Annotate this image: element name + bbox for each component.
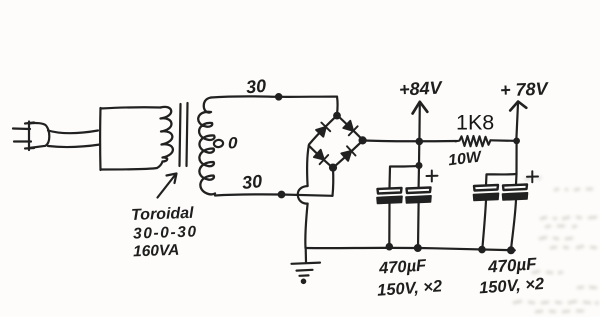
wire branch to capacitor C3: [486, 174, 517, 185]
plus sign C2: [427, 171, 438, 182]
wire down to bridge top vertex: [336, 97, 339, 115]
bleed-through smudges (background, faint): [513, 178, 599, 312]
svg-text:+84V: +84V: [399, 77, 445, 99]
svg-text:+ 78V: + 78V: [500, 79, 550, 101]
junction dot bottom wire: [279, 192, 285, 198]
bridge rectifier diamond edges: [309, 116, 363, 168]
wire C4 bottom to ground rail: [511, 200, 516, 250]
transformer T1 secondary winding: [198, 98, 215, 195]
node +78V arrow: [510, 102, 526, 144]
capacitor C4 plates: [503, 185, 528, 201]
diode D3 (bottom-left edge): [314, 150, 328, 164]
wire bridge left vertex down (with hop): [307, 146, 309, 187]
wire C2 bottom to ground rail: [417, 203, 420, 248]
diode D1 (top-left edge): [316, 123, 330, 137]
transformer T1 primary winding: [161, 107, 173, 162]
capacitor C1 plates: [377, 188, 402, 204]
wire resistor to +78 node: [491, 139, 517, 142]
transformer T1 core: [180, 104, 181, 166]
wire top 30 from secondary to bridge: [211, 96, 337, 97]
capacitor C3 plates: [474, 185, 499, 201]
junction dot top wire: [276, 94, 281, 99]
annotation arrow to transformer: [158, 174, 177, 198]
wire +84 node down to capacitor C2: [418, 141, 421, 187]
transformer T1 primary box: [100, 107, 162, 170]
svg-text:470µF: 470µF: [486, 254, 537, 276]
wire hop over AC wire: [298, 186, 308, 204]
svg-text:470µF: 470µF: [378, 256, 428, 277]
svg-text:1K8: 1K8: [456, 111, 494, 135]
wire plug to primary (top): [48, 131, 98, 134]
mains plug: [13, 122, 49, 151]
ground symbol: [292, 248, 321, 283]
wire +78 node down to capacitor C4: [515, 141, 518, 185]
node 0 centre tap terminal: [213, 139, 223, 147]
wire up to bridge bottom vertex: [331, 168, 334, 196]
svg-text:Toroidal: Toroidal: [131, 205, 195, 224]
svg-text:30: 30: [245, 76, 267, 98]
resistor R1 zigzag: [456, 136, 491, 146]
svg-text:160VA: 160VA: [133, 242, 180, 261]
wire C1 bottom to ground rail: [388, 204, 390, 247]
wire plug to primary (bottom): [48, 145, 100, 148]
capacitor C2 plates: [406, 188, 431, 204]
wire bottom 30 from secondary to bridge: [215, 194, 333, 195]
svg-text:0: 0: [228, 134, 238, 153]
bridge vertex dots: [334, 113, 340, 119]
ground rail wire: [306, 248, 515, 250]
wire branch to capacitor C1: [390, 166, 420, 188]
svg-text:30: 30: [241, 171, 263, 193]
svg-text:30-0-30: 30-0-30: [133, 223, 198, 242]
wire + rail from bridge to resistor: [364, 139, 457, 142]
diode D2 (top-right edge): [343, 121, 357, 136]
wire C3 bottom to ground rail: [482, 201, 486, 250]
plus sign C4: [527, 171, 538, 182]
node +84V arrow: [413, 102, 428, 144]
diode D4 (bottom-right edge): [341, 146, 355, 161]
